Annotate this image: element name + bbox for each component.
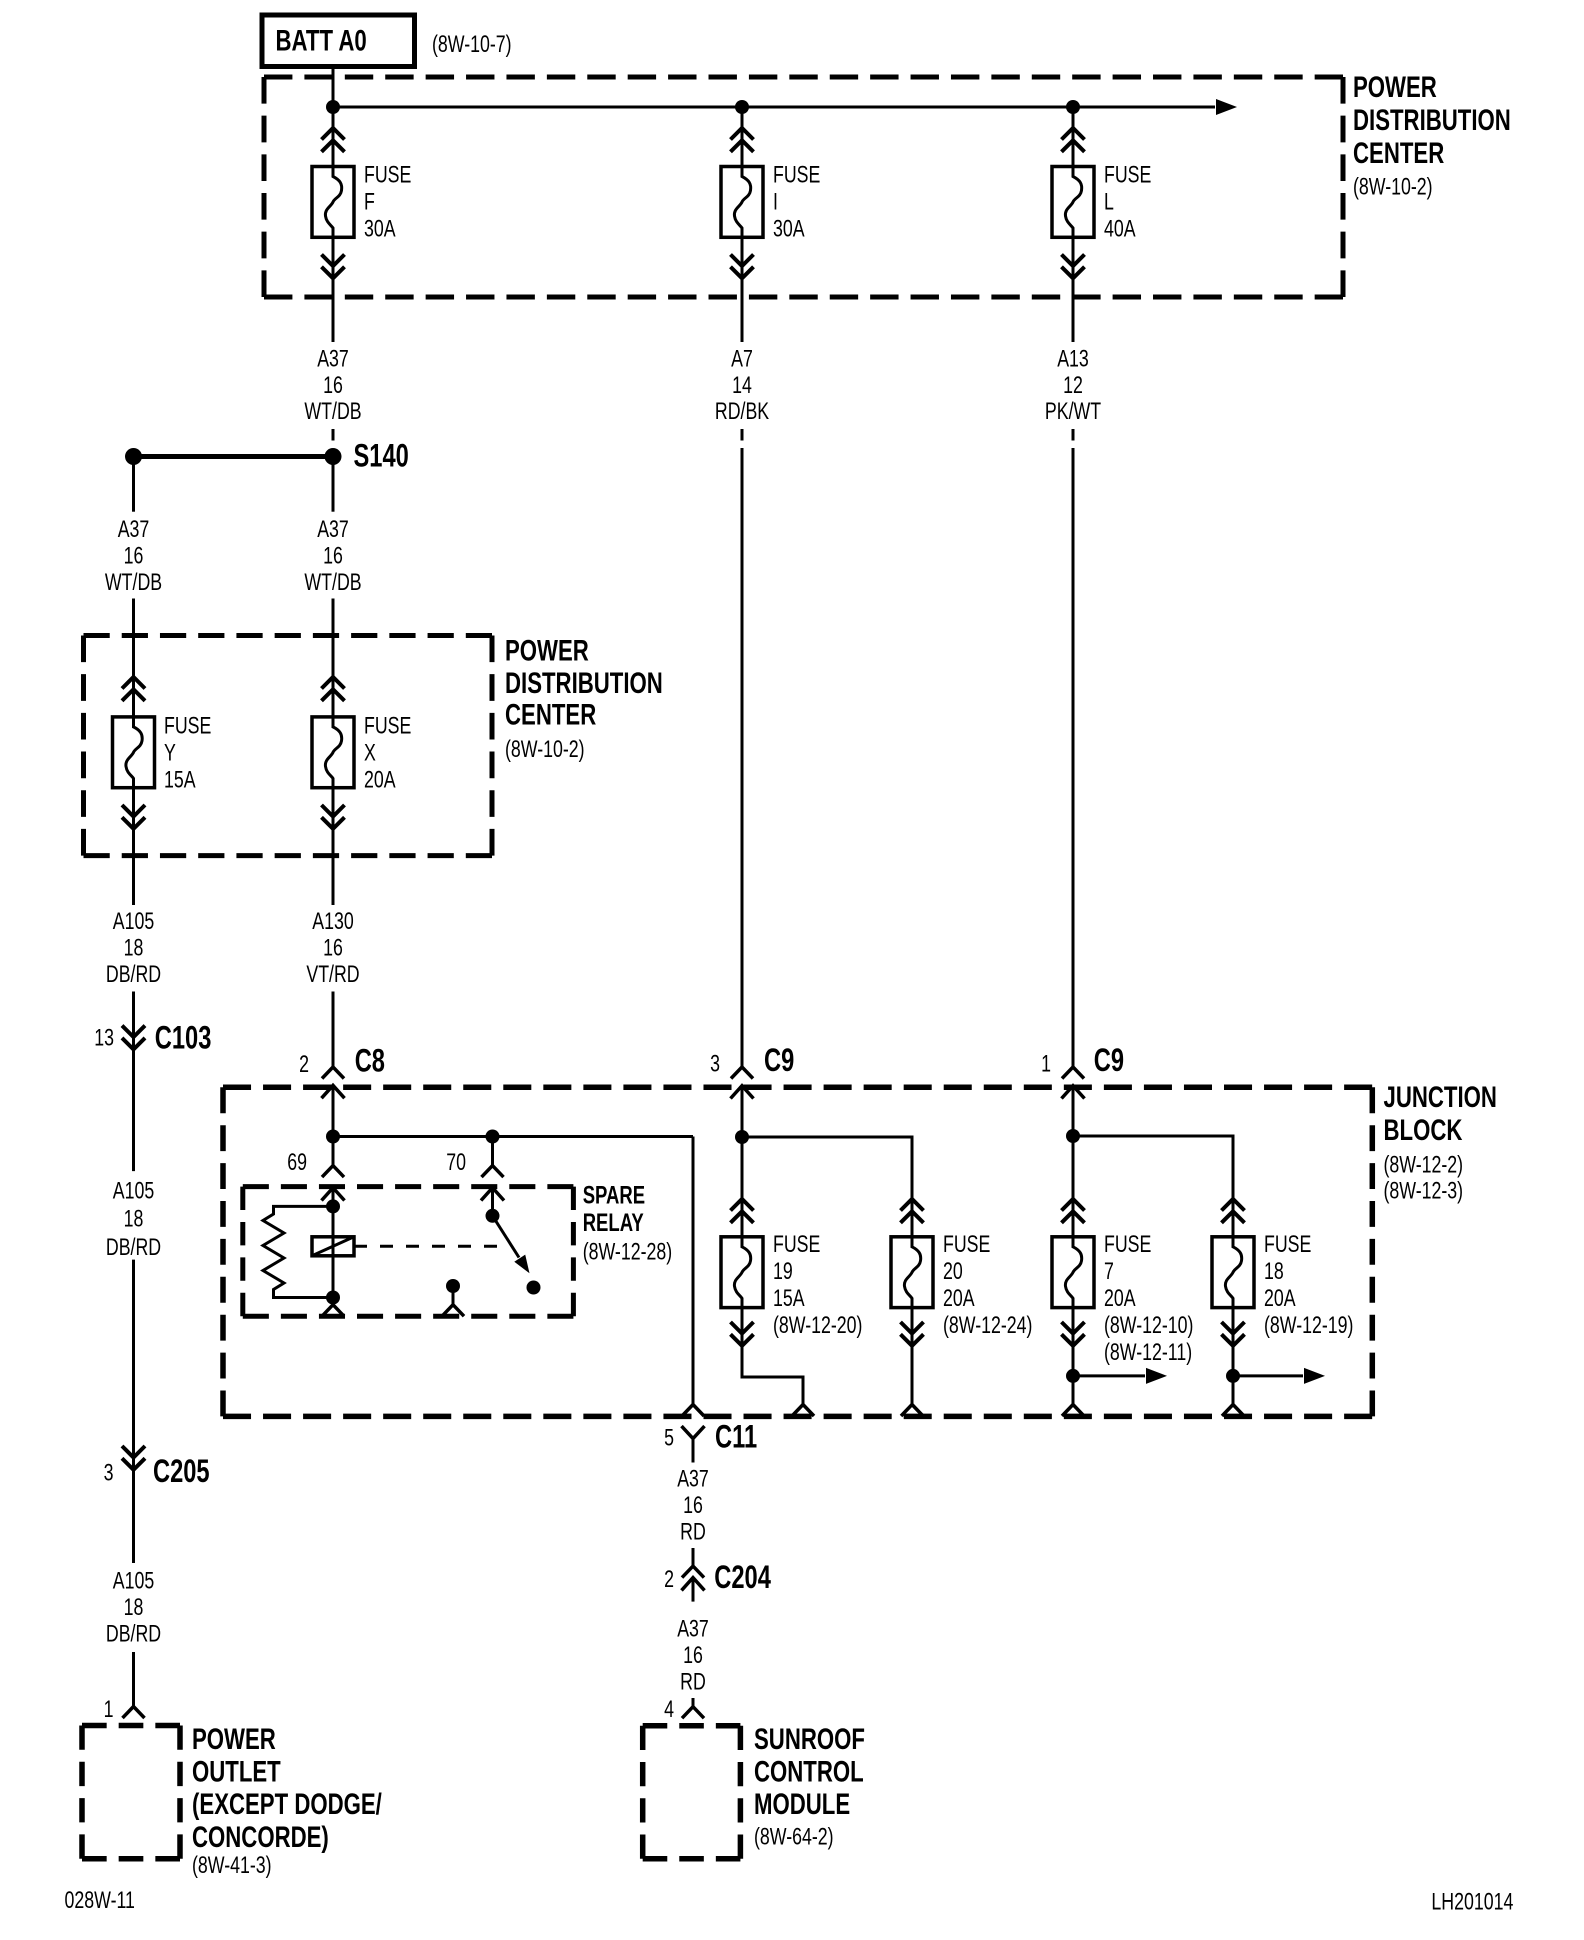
wire label A105 18 DB/RD (middle) xyxy=(106,1178,161,1261)
svg-text:A37: A37 xyxy=(317,346,349,372)
svg-text:BATT A0: BATT A0 xyxy=(276,23,367,57)
wire label A130 16 VT/RD xyxy=(306,908,359,987)
connector fork relay pin 69 xyxy=(322,1166,344,1178)
connector chevrons below fuse X xyxy=(322,805,345,829)
wire bus to fuse F xyxy=(332,107,335,167)
svg-text:POWER: POWER xyxy=(505,633,589,667)
wire pin 69 to coil node xyxy=(332,1188,335,1207)
connector C11 fork (female) xyxy=(682,1405,704,1417)
wire S140 right down xyxy=(332,464,335,512)
svg-text:A105: A105 xyxy=(113,908,154,934)
svg-text:C103: C103 xyxy=(155,1020,212,1055)
svg-text:13: 13 xyxy=(94,1025,114,1051)
wire C8 into junction block xyxy=(332,1085,335,1136)
svg-text:A7: A7 xyxy=(731,346,753,372)
svg-text:(8W-12-3): (8W-12-3) xyxy=(1384,1178,1464,1204)
connector male arrow relay pin 70 xyxy=(481,1188,504,1201)
splice node left S140 xyxy=(125,448,142,465)
svg-text:A130: A130 xyxy=(312,908,353,934)
svg-text:BLOCK: BLOCK xyxy=(1384,1113,1463,1147)
resistor (relay suppression) xyxy=(263,1206,333,1297)
dashed actuation link xyxy=(354,1245,506,1248)
wire C9 pin3 into junction block xyxy=(741,1086,744,1137)
bus wire A0 with arrow xyxy=(333,99,1237,115)
junction block box xyxy=(223,1087,1372,1416)
svg-text:(8W-12-10): (8W-12-10) xyxy=(1104,1313,1193,1339)
svg-text:1: 1 xyxy=(104,1696,114,1722)
wire node to relay pin 70 xyxy=(491,1137,494,1166)
svg-text:2: 2 xyxy=(664,1566,674,1592)
svg-text:C11: C11 xyxy=(715,1419,757,1454)
svg-text:C8: C8 xyxy=(355,1043,385,1078)
wire C9 pin1 into junction block xyxy=(1072,1086,1075,1136)
svg-text:WT/DB: WT/DB xyxy=(304,399,361,425)
wire into fuse X xyxy=(332,599,335,717)
svg-text:1: 1 xyxy=(1041,1051,1051,1077)
svg-text:4: 4 xyxy=(664,1696,674,1722)
header POWER DISTRIBUTION CENTER (8W-10-2) top xyxy=(1353,70,1511,201)
wire A130 down to C8 xyxy=(332,992,335,1068)
node bus at fuse L xyxy=(1066,100,1080,114)
svg-text:(EXCEPT DODGE/: (EXCEPT DODGE/ xyxy=(192,1787,382,1821)
svg-text:DISTRIBUTION: DISTRIBUTION xyxy=(505,666,663,700)
svg-text:14: 14 xyxy=(732,372,752,398)
chevrons above fuse 19 xyxy=(731,1199,754,1223)
connector fork fuse 20 exit xyxy=(901,1405,923,1417)
svg-text:RD: RD xyxy=(680,1519,706,1545)
svg-text:15A: 15A xyxy=(773,1286,805,1312)
connector fork fuse 7 exit xyxy=(1062,1405,1084,1417)
svg-text:POWER: POWER xyxy=(192,1722,276,1756)
svg-text:15A: 15A xyxy=(164,767,196,793)
wire label A13 12 PK/WT xyxy=(1045,346,1101,425)
node fuse 7 feed xyxy=(1066,1129,1080,1143)
header POWER DISTRIBUTION CENTER (8W-10-2) middle xyxy=(505,633,663,763)
wire center contact stub xyxy=(452,1286,455,1305)
connector fork at power outlet pin 1 xyxy=(123,1707,145,1719)
svg-text:18: 18 xyxy=(124,1594,144,1620)
fuse 7 20A xyxy=(1052,1232,1193,1366)
wire BATT A0 down to bus xyxy=(332,67,335,108)
connector chevrons above fuse F xyxy=(322,128,345,152)
connector C204 male arrow xyxy=(682,1578,705,1591)
fuse Y 15A xyxy=(113,713,212,793)
svg-text:(8W-12-24): (8W-12-24) xyxy=(943,1313,1032,1339)
svg-text:(8W-12-20): (8W-12-20) xyxy=(773,1313,862,1339)
wire C8 node to C11 drop xyxy=(333,1135,693,1138)
chevrons above fuse 20 xyxy=(901,1199,924,1223)
node relay coil top xyxy=(326,1199,340,1213)
svg-text:FUSE: FUSE xyxy=(164,713,211,739)
svg-text:(8W-12-11): (8W-12-11) xyxy=(1104,1340,1192,1366)
svg-text:16: 16 xyxy=(683,1493,703,1519)
svg-text:20A: 20A xyxy=(1264,1286,1296,1312)
svg-text:30A: 30A xyxy=(364,216,396,242)
svg-text:A37: A37 xyxy=(317,517,349,543)
svg-text:SUNROOF: SUNROOF xyxy=(754,1722,865,1756)
switch arm with arrowhead xyxy=(493,1216,535,1277)
wire fuse 20 output to border xyxy=(911,1308,914,1405)
svg-text:C9: C9 xyxy=(764,1043,794,1078)
connector C205 chevrons xyxy=(122,1446,145,1470)
wire node to relay pin 69 xyxy=(332,1137,335,1166)
wire label A37 16 RD (upper) xyxy=(677,1466,709,1545)
connector C8 fork (female) xyxy=(322,1067,344,1079)
fuse F 30A xyxy=(312,162,411,242)
svg-text:16: 16 xyxy=(323,372,343,398)
svg-text:(8W-41-3): (8W-41-3) xyxy=(192,1853,272,1879)
connector C9 male arrow (pin 3) xyxy=(731,1086,754,1099)
connector chevrons below fuse F xyxy=(322,255,345,279)
svg-text:CONTROL: CONTROL xyxy=(754,1754,864,1788)
svg-text:12: 12 xyxy=(1063,372,1083,398)
node switch contact (center) xyxy=(446,1279,460,1293)
node bus at fuse F xyxy=(326,100,340,114)
wire label A7 14 RD/BK xyxy=(715,346,769,425)
wire fuse 18 output to border xyxy=(1232,1308,1235,1405)
connector chevrons below fuse Y xyxy=(122,805,145,829)
connector fork below coil xyxy=(322,1305,344,1317)
svg-text:A37: A37 xyxy=(677,1466,709,1492)
svg-text:7: 7 xyxy=(1104,1259,1114,1285)
power distribution center box (middle) xyxy=(84,636,493,856)
svg-text:RD: RD xyxy=(680,1669,706,1695)
svg-text:FUSE: FUSE xyxy=(364,713,411,739)
wire A105 down through C103 xyxy=(132,992,135,1172)
connector C9 fork (pin 1) xyxy=(1062,1067,1084,1079)
wire fuse L output xyxy=(1072,238,1075,342)
wire label A37 16 RD (lower) xyxy=(677,1616,709,1695)
svg-text:DISTRIBUTION: DISTRIBUTION xyxy=(1353,103,1511,137)
connector chevrons above fuse L xyxy=(1062,128,1085,152)
chevrons above fuse 7 xyxy=(1062,1199,1085,1223)
svg-text:2: 2 xyxy=(299,1052,309,1078)
svg-text:20A: 20A xyxy=(1104,1286,1136,1312)
wire label A37 16 WT/DB (left branch) xyxy=(105,517,162,596)
connector C9 male arrow (pin 1) xyxy=(1062,1086,1085,1099)
wire label A105 18 DB/RD (lower) xyxy=(106,1568,161,1647)
wire C204 stem xyxy=(692,1578,695,1602)
chevrons below fuse 18 xyxy=(1222,1322,1245,1346)
svg-text:C204: C204 xyxy=(714,1559,771,1594)
wire S140 left down xyxy=(132,464,135,512)
svg-text:(8W-64-2): (8W-64-2) xyxy=(754,1824,834,1850)
node switch contact (thrown) xyxy=(527,1281,541,1295)
arrow feed from fuse 7 xyxy=(1073,1368,1167,1384)
svg-text:40A: 40A xyxy=(1104,216,1136,242)
wire bus to fuse I xyxy=(741,107,744,167)
wire down to fuse 19 xyxy=(741,1137,744,1237)
svg-text:CENTER: CENTER xyxy=(505,697,596,731)
svg-text:L: L xyxy=(1104,189,1114,215)
wire A7 down to C9 pin 3 xyxy=(741,448,744,1067)
wire fuse F output xyxy=(332,238,335,342)
connector fork fuse 18 exit xyxy=(1222,1405,1244,1417)
svg-text:16: 16 xyxy=(323,935,343,961)
fuse 20 20A xyxy=(891,1232,1032,1339)
svg-text:FUSE: FUSE xyxy=(773,162,820,188)
spare relay box xyxy=(243,1187,574,1317)
label SUNROOF CONTROL MODULE (8W-64-2) xyxy=(754,1722,865,1851)
svg-text:18: 18 xyxy=(1264,1259,1284,1285)
fuse I 30A xyxy=(721,162,820,242)
svg-text:70: 70 xyxy=(446,1150,466,1176)
svg-text:C205: C205 xyxy=(153,1453,210,1488)
svg-text:PK/WT: PK/WT xyxy=(1045,399,1101,425)
node relay pin 70 branch xyxy=(486,1130,500,1144)
label SPARE RELAY (8W-12-28) xyxy=(583,1181,672,1265)
chevrons below fuse 7 xyxy=(1062,1322,1085,1346)
fuse X 20A xyxy=(312,713,411,793)
svg-text:A37: A37 xyxy=(118,517,150,543)
wire down to C11 xyxy=(692,1137,695,1405)
sunroof control module box xyxy=(643,1726,741,1859)
power outlet box xyxy=(82,1726,180,1859)
svg-text:(8W-12-19): (8W-12-19) xyxy=(1264,1313,1353,1339)
connector C8 male arrow xyxy=(322,1085,345,1098)
wire stub below label x=1073 xyxy=(1072,429,1075,441)
svg-text:FUSE: FUSE xyxy=(1104,162,1151,188)
connector C11 male Y xyxy=(682,1426,705,1439)
node C8 feed xyxy=(326,1130,340,1144)
svg-text:A13: A13 xyxy=(1057,346,1089,372)
svg-text:I: I xyxy=(773,189,778,215)
svg-text:16: 16 xyxy=(124,543,144,569)
wire coil bottom stub xyxy=(332,1298,335,1305)
svg-text:16: 16 xyxy=(683,1643,703,1669)
connector chevrons above fuse X xyxy=(322,677,345,701)
wire to power outlet xyxy=(132,1652,135,1707)
wire to sunroof control module xyxy=(692,1698,695,1707)
svg-text:FUSE: FUSE xyxy=(1264,1232,1311,1258)
power distribution center box (top) xyxy=(264,77,1343,297)
svg-text:LH201014: LH201014 xyxy=(1431,1889,1513,1915)
svg-text:A37: A37 xyxy=(677,1616,709,1642)
arrow feed from fuse 18 xyxy=(1233,1368,1325,1384)
svg-text:X: X xyxy=(364,740,376,766)
connector C103 chevrons xyxy=(122,1026,145,1050)
connector fork fuse 19 exit xyxy=(792,1405,814,1417)
svg-text:FUSE: FUSE xyxy=(1104,1232,1151,1258)
svg-text:RD/BK: RD/BK xyxy=(715,399,769,425)
node fuse 7 output xyxy=(1066,1369,1080,1383)
svg-text:A105: A105 xyxy=(113,1178,154,1204)
svg-text:WT/DB: WT/DB xyxy=(105,570,162,596)
connector fork below center contact xyxy=(442,1305,464,1317)
fuse 18 20A xyxy=(1212,1232,1353,1339)
svg-text:(8W-10-2): (8W-10-2) xyxy=(505,737,585,763)
svg-text:RELAY: RELAY xyxy=(583,1208,644,1236)
svg-text:FUSE: FUSE xyxy=(943,1232,990,1258)
svg-text:18: 18 xyxy=(124,1206,144,1232)
svg-text:SPARE: SPARE xyxy=(583,1181,645,1209)
wire fuse I output xyxy=(741,238,744,342)
wire label A37 16 WT/DB (right branch) xyxy=(304,517,361,596)
chevrons below fuse 20 xyxy=(901,1322,924,1346)
node fuse 18 output xyxy=(1226,1369,1240,1383)
svg-text:FUSE: FUSE xyxy=(364,162,411,188)
svg-text:CENTER: CENTER xyxy=(1353,136,1444,170)
wire fuse 7 output to border xyxy=(1072,1308,1075,1405)
wire through coil xyxy=(332,1206,335,1297)
svg-text:DB/RD: DB/RD xyxy=(106,1235,161,1261)
connector C9 fork (pin 3) xyxy=(731,1067,753,1079)
node switch pivot xyxy=(486,1209,500,1223)
wire fuse X output xyxy=(332,788,335,905)
svg-text:(8W-12-28): (8W-12-28) xyxy=(583,1239,672,1265)
svg-text:30A: 30A xyxy=(773,216,805,242)
chevrons below fuse 19 xyxy=(731,1322,754,1346)
svg-text:JUNCTION: JUNCTION xyxy=(1384,1080,1497,1114)
connector fork at sunroof pin 4 xyxy=(682,1707,704,1719)
wire A13 down to C9 pin 1 xyxy=(1072,448,1075,1067)
wire bus to fuse L xyxy=(1072,107,1075,167)
node bus at fuse I xyxy=(735,100,749,114)
wire pin 70 to switch xyxy=(491,1188,494,1216)
wire fuse Y output xyxy=(132,788,135,905)
wire label A105 18 DB/RD (upper) xyxy=(106,908,161,987)
svg-text:3: 3 xyxy=(104,1460,114,1486)
svg-text:19: 19 xyxy=(773,1259,793,1285)
svg-text:F: F xyxy=(364,189,375,215)
svg-text:20A: 20A xyxy=(943,1286,975,1312)
label POWER OUTLET (EXCEPT DODGE/ CONCORDE) (8W-41-3) xyxy=(192,1722,382,1879)
svg-text:OUTLET: OUTLET xyxy=(192,1754,281,1788)
svg-text:VT/RD: VT/RD xyxy=(306,962,359,988)
connector C204 fork (female) xyxy=(682,1566,704,1578)
BATT A0 terminal box xyxy=(262,15,415,67)
wire C11 stem xyxy=(692,1439,695,1463)
wire stub below label x=333 xyxy=(332,429,335,441)
svg-text:POWER: POWER xyxy=(1353,70,1437,104)
svg-text:Y: Y xyxy=(164,740,176,766)
wire stub below label x=742 xyxy=(741,429,744,441)
relay coil xyxy=(312,1237,354,1256)
svg-text:S140: S140 xyxy=(354,438,409,473)
svg-text:C9: C9 xyxy=(1094,1043,1124,1078)
svg-text:18: 18 xyxy=(124,935,144,961)
svg-text:WT/DB: WT/DB xyxy=(304,570,361,596)
connector fork relay pin 70 xyxy=(482,1166,504,1178)
node relay coil bottom xyxy=(326,1291,340,1305)
wire fuse 19 output to border xyxy=(742,1308,803,1405)
connector chevrons below fuse L xyxy=(1062,255,1085,279)
svg-text:20: 20 xyxy=(943,1259,963,1285)
wire down to fuse 7 xyxy=(1072,1136,1075,1237)
fuse L 40A xyxy=(1052,162,1151,242)
wire S140 splice bar xyxy=(134,454,334,459)
fuse 19 15A xyxy=(721,1232,862,1339)
svg-text:5: 5 xyxy=(664,1425,674,1451)
svg-text:(8W-10-7): (8W-10-7) xyxy=(432,32,512,58)
wire branch to fuse 18 xyxy=(1073,1136,1233,1237)
connector chevrons above fuse I xyxy=(731,128,754,152)
svg-text:MODULE: MODULE xyxy=(754,1787,850,1821)
chevrons above fuse 18 xyxy=(1222,1199,1245,1223)
wire into fuse Y xyxy=(132,599,135,717)
wire A105 down through C205 xyxy=(132,1260,135,1563)
splice node S140 xyxy=(325,448,342,465)
svg-text:(8W-12-2): (8W-12-2) xyxy=(1384,1152,1464,1178)
header JUNCTION BLOCK (8W-12-2) (8W-12-3) xyxy=(1384,1080,1497,1205)
svg-text:3: 3 xyxy=(710,1051,720,1077)
svg-text:FUSE: FUSE xyxy=(773,1232,820,1258)
svg-text:A105: A105 xyxy=(113,1568,154,1594)
wire label A37 16 WT/DB (top) xyxy=(304,346,361,425)
node fuse 19 feed xyxy=(735,1130,749,1144)
svg-text:028W-11: 028W-11 xyxy=(65,1887,135,1913)
svg-text:DB/RD: DB/RD xyxy=(106,1621,161,1647)
connector chevrons above fuse Y xyxy=(122,677,145,701)
connector male arrow relay pin 69 xyxy=(322,1188,345,1201)
svg-text:16: 16 xyxy=(323,543,343,569)
svg-text:20A: 20A xyxy=(364,767,396,793)
svg-text:CONCORDE): CONCORDE) xyxy=(192,1820,329,1854)
svg-text:69: 69 xyxy=(287,1150,307,1176)
svg-text:DB/RD: DB/RD xyxy=(106,962,161,988)
connector chevrons below fuse I xyxy=(731,255,754,279)
svg-text:(8W-10-2): (8W-10-2) xyxy=(1353,174,1433,200)
wire to C204 xyxy=(692,1548,695,1566)
wire branch to fuse 20 xyxy=(742,1137,912,1237)
